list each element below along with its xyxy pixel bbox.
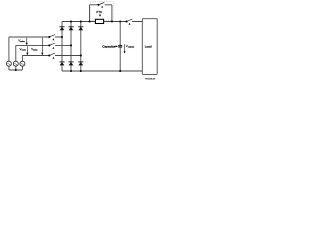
svg-text:TP11156-5E: TP11156-5E <box>145 78 156 80</box>
diode D4 bottom <box>59 61 64 63</box>
node botrail-col3 <box>80 70 82 72</box>
node phase2-col2 <box>70 44 72 46</box>
wire phase L1 <box>9 37 62 61</box>
arrow Vout <box>124 44 126 51</box>
switch relay bypass <box>97 4 99 6</box>
node rail-col2 <box>70 20 72 22</box>
svg-text:PTC: PTC <box>96 10 102 14</box>
diode D1 top <box>59 26 64 28</box>
wire bypass left <box>90 5 99 22</box>
AC source G3 <box>20 61 25 66</box>
wire bridge column 3 <box>80 22 82 72</box>
node phase3-col3 <box>80 54 82 56</box>
arrow PTC <box>99 14 101 15</box>
svg-text:Load: Load <box>145 44 152 48</box>
node star <box>15 69 17 71</box>
load box <box>142 19 157 75</box>
switch S1 phase1 <box>48 36 50 38</box>
arrow capacitor <box>114 45 116 47</box>
diode D6 bottom <box>78 61 83 63</box>
wire source star point <box>9 66 23 70</box>
wire phase L2 <box>16 45 71 61</box>
node bypass left <box>88 20 90 22</box>
wire top DC+ rail <box>62 21 142 23</box>
diode D3 top <box>78 26 83 28</box>
dashed enclosure <box>91 2 114 21</box>
wire bottom DC- rail <box>62 70 142 72</box>
switch S3 phase3 <box>48 54 50 56</box>
resistor PTC <box>95 19 103 23</box>
svg-text:Capacitor: Capacitor <box>102 45 115 49</box>
wire bridge column 2 <box>70 22 72 72</box>
capacitor C1 plates <box>118 46 122 47</box>
wire bridge column 1 <box>61 22 63 72</box>
AC source G2 <box>13 61 18 66</box>
wire bypass right <box>105 5 112 22</box>
node bypass right <box>111 20 113 22</box>
diode D5 bottom <box>68 61 73 63</box>
AC source G1 <box>6 61 11 66</box>
wire phase L3 <box>22 56 80 62</box>
arrow V1 <box>26 38 28 43</box>
wire capacitor branch <box>119 22 121 72</box>
node botrail-col2 <box>70 70 72 72</box>
arrow V2 <box>26 46 28 53</box>
switch S4 rail <box>126 20 128 22</box>
diode D2 top <box>68 26 73 28</box>
node cap branch bottom <box>119 70 121 72</box>
arrow V3 long <box>41 38 43 53</box>
node phase1-col1 <box>61 36 63 38</box>
node cap branch top <box>119 20 121 22</box>
switch S2 phase2 <box>48 44 50 46</box>
node rail-col3 <box>80 20 82 22</box>
